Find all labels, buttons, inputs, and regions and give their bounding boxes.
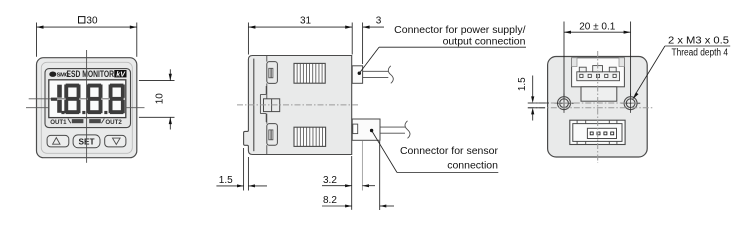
connector inner: [572, 58, 625, 101]
dim 8.2: [379, 141, 381, 210]
svg-text:20 ± 0.1: 20 ± 0.1: [579, 22, 616, 33]
back horizontal centerline: [528, 107, 655, 109]
dim 1.5 left: [528, 102, 549, 104]
top clip: [266, 56, 268, 62]
svg-text:Connector for power supply/: Connector for power supply/: [394, 24, 525, 36]
vertical centerline: [86, 50, 88, 163]
LCD window: [49, 80, 126, 118]
dim 10 extension lines: [139, 80, 175, 82]
svg-text:output connection: output connection: [443, 36, 526, 48]
svg-text:1.5: 1.5: [219, 175, 233, 186]
svg-text:8.2: 8.2: [323, 195, 337, 206]
back body: [548, 57, 648, 158]
center box: [264, 99, 280, 112]
svg-text:10: 10: [154, 93, 165, 105]
bezel separation line: [253, 59, 255, 152]
buttons: [47, 135, 126, 148]
body centerline horizontal (left+right segments): [26, 107, 49, 109]
LCD centerline horizontal: [29, 98, 125, 100]
leader power connector: [358, 72, 361, 75]
dim square30 text: [79, 15, 98, 26]
side centerline: [237, 104, 360, 106]
svg-text:Connector for sensor: Connector for sensor: [400, 145, 499, 157]
dim 10 line + arrows: [169, 69, 171, 80]
svg-text:1.5: 1.5: [517, 77, 528, 91]
bottom connector: [570, 120, 625, 144]
dim 31: [247, 23, 249, 55]
kV badge: [114, 70, 126, 77]
back vertical centerline: [597, 51, 599, 163]
svg-text:30: 30: [86, 15, 98, 26]
top vent block: [294, 63, 325, 83]
bottom clip: [266, 114, 268, 124]
dim 3.2: [351, 156, 353, 210]
svg-text:ESD MONITOR: ESD MONITOR: [67, 69, 115, 79]
dim 1.5 bottom left: [243, 148, 245, 191]
sensor cable: [380, 126, 405, 128]
svg-text:Thread depth 4: Thread depth 4: [672, 47, 729, 58]
display module outline: [45, 69, 131, 128]
leader to screw: [635, 46, 665, 95]
power connector block: [352, 66, 362, 84]
svg-text:3.2: 3.2: [323, 175, 337, 186]
svg-text:kV: kV: [116, 72, 126, 79]
dim 3: [362, 23, 364, 65]
screw hole right: [621, 94, 640, 113]
svg-text:31: 31: [300, 15, 312, 26]
svg-text:OUT2: OUT2: [105, 119, 122, 126]
OUT row: [50, 119, 122, 126]
screw axis line: [528, 102, 638, 104]
SMC logo: [49, 72, 69, 79]
center step: [260, 86, 266, 122]
svg-text:OUT1: OUT1: [50, 119, 67, 126]
side body outline with left tab: [244, 56, 352, 155]
bottom vent block: [294, 127, 326, 146]
svg-text:2 x M3 x 0.5: 2 x M3 x 0.5: [668, 35, 729, 46]
LCD digits: [51, 84, 125, 115]
front body: [37, 58, 137, 158]
svg-text:3: 3: [376, 15, 382, 26]
dim square30 line: [37, 26, 137, 28]
screw hole left: [554, 94, 573, 113]
connector recess: [572, 58, 625, 87]
svg-text:connection: connection: [447, 159, 498, 171]
leader sensor connector: [370, 129, 373, 132]
front inner faint outline: [41, 62, 132, 153]
dim 20 line: [564, 31, 631, 33]
sensor connector block: [352, 119, 380, 140]
dim square30 extension lines: [36, 23, 38, 57]
power cable: [363, 70, 389, 72]
leader underline: [665, 45, 730, 47]
dim 20 ext lines: [563, 22, 565, 97]
